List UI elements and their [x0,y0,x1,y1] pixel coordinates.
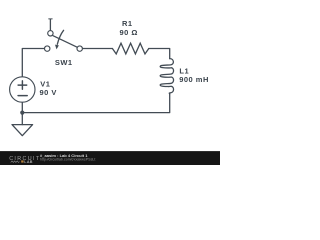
svg-text:SW1: SW1 [55,58,73,67]
svg-text:90 Ω: 90 Ω [119,28,137,37]
svg-text:http·∕∕circuitlab.com∕c∕xxakws: http·∕∕circuitlab.com∕c∕xxakwsPSsLt [40,158,95,162]
svg-text:90 V: 90 V [40,88,57,97]
svg-text:LAB: LAB [24,160,33,164]
svg-text:R1: R1 [122,19,133,28]
svg-text:L1: L1 [179,66,189,75]
svg-text:900 mH: 900 mH [179,75,209,84]
